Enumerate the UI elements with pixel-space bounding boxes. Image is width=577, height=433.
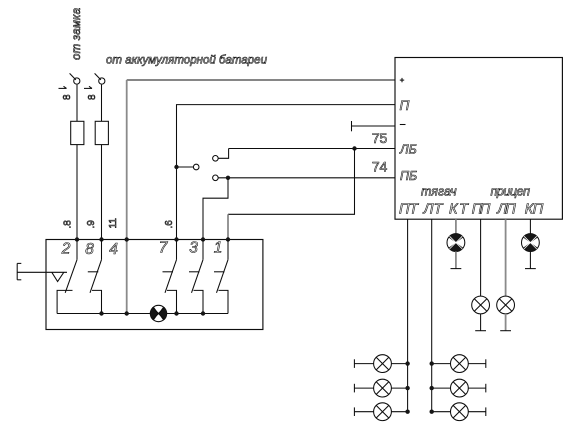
svg-text:7: 7 xyxy=(159,240,169,257)
wire: HL4 to bar xyxy=(505,314,507,331)
svg-text:11: 11 xyxy=(108,218,119,229)
wire: HL3 to bar xyxy=(480,314,482,331)
relay output wire ПП xyxy=(480,219,482,296)
switch contact pin 2 xyxy=(57,240,77,314)
contact pivot circle xyxy=(193,164,199,170)
node dot xyxy=(430,386,434,390)
switch contact pin 7 xyxy=(163,240,177,314)
svg-text:3: 3 xyxy=(189,240,198,257)
node: ЛБ branch dot xyxy=(352,146,356,150)
lamp HL8 xyxy=(374,403,392,421)
pin labels 2 8 4 7 3 1 xyxy=(61,240,223,259)
contact upper (to ЛБ) xyxy=(213,156,219,162)
lamp row 3 right: wire xyxy=(432,411,486,413)
node dot xyxy=(430,410,434,414)
svg-text:.8: .8 xyxy=(63,220,74,229)
wire: pin 4 vertical (battery feed) xyxy=(126,80,128,314)
wire: ПБ branch to pin 3 xyxy=(203,178,228,240)
indicator lamp HL1 (in box) xyxy=(150,305,166,321)
svg-text:.9: .9 xyxy=(86,220,97,229)
fuse F1 xyxy=(71,121,84,144)
svg-text:ПП: ПП xyxy=(472,201,491,217)
svg-text:П: П xyxy=(400,98,410,113)
wire: П terminal to switch pin 7 xyxy=(177,105,396,240)
wire label 8 (right) xyxy=(84,86,98,100)
relay box U1 xyxy=(395,58,562,220)
svg-text:1: 1 xyxy=(214,240,223,257)
svg-text:74: 74 xyxy=(372,158,388,174)
svg-text:КТ: КТ xyxy=(449,201,469,217)
wire: minus terminal stub xyxy=(352,125,396,127)
wire: connector X1 to fuse F1 xyxy=(76,85,78,122)
terminal bar xyxy=(353,384,355,393)
node dot xyxy=(405,410,409,414)
svg-text:ЛП: ЛП xyxy=(496,201,516,217)
lamp HL10 xyxy=(451,379,469,397)
connector X2 (к батарее) xyxy=(99,78,105,84)
switch contact pin 1 xyxy=(214,240,228,314)
lamp HL9 xyxy=(451,355,469,373)
rotated wire labels above box xyxy=(63,218,176,229)
svg-text:.6: .6 xyxy=(164,220,175,229)
node dot xyxy=(430,361,434,365)
wire: connector X2 to fuse F2 xyxy=(101,85,103,122)
svg-text:тягач: тягач xyxy=(421,185,457,199)
svg-text:ПБ: ПБ xyxy=(400,169,417,183)
lamp row 1 right: wire xyxy=(432,363,486,365)
terminal label + xyxy=(400,78,404,82)
terminal bar ПП xyxy=(475,330,486,332)
left switch box S1 xyxy=(46,240,263,330)
wire ЛБ (75) xyxy=(229,148,395,150)
terminal bar xyxy=(353,407,355,416)
terminal bar (minus) xyxy=(351,121,353,131)
relay output wire КТ xyxy=(455,219,457,234)
mechanical actuator bracket xyxy=(17,263,67,279)
svg-text:2: 2 xyxy=(61,241,71,258)
svg-text:75: 75 xyxy=(372,130,388,146)
node dot xyxy=(405,386,409,390)
contact lower (to ПБ) xyxy=(213,175,219,181)
relay output wire ЛТ xyxy=(431,219,433,412)
wire: upper contact to ЛБ line xyxy=(218,149,228,159)
svg-text:ЛТ: ЛТ xyxy=(423,201,444,217)
wire: battery feed to relay + terminal xyxy=(127,79,395,81)
svg-text:КП: КП xyxy=(525,201,544,217)
lamp HL3 (ПП) xyxy=(472,296,490,314)
wire label 8 (left) xyxy=(59,86,74,100)
wire: ЛБ branch to pin 1 xyxy=(228,149,355,215)
svg-text:8: 8 xyxy=(62,94,73,100)
lamp HL6 xyxy=(374,355,392,373)
terminal bar КТ xyxy=(451,268,462,270)
terminal labels ПТ ЛТ КТ ПП ЛП КП xyxy=(399,201,544,217)
actuator V link xyxy=(52,272,64,281)
bus wire in box xyxy=(57,313,228,315)
terminal bar xyxy=(353,359,355,368)
lamp row 2 left: wire xyxy=(354,387,407,389)
terminal bar xyxy=(485,359,487,368)
svg-text:8: 8 xyxy=(87,94,98,100)
lamp row 1 left: wire xyxy=(354,363,407,365)
lamp HL4 (ЛП) xyxy=(497,296,515,314)
terminal bar xyxy=(485,407,487,416)
terminal bar ЛП xyxy=(500,330,511,332)
terminal bar xyxy=(485,384,487,393)
indicator lamp HL5 (КП) xyxy=(522,234,540,252)
switch contact pin 3 xyxy=(189,240,203,314)
relay output wire ЛП xyxy=(505,219,507,296)
terminal bar КП xyxy=(525,268,536,270)
node: pivot branch dot on pin 7 wire xyxy=(174,165,178,169)
svg-text:ЛБ: ЛБ xyxy=(399,143,417,157)
relay output wire КП xyxy=(529,219,531,234)
node: ПБ branch dot xyxy=(226,176,230,180)
switch contact pin 8 xyxy=(88,240,102,314)
bus node dots xyxy=(99,311,205,315)
node dots on box top edge xyxy=(75,237,230,241)
terminal label minus xyxy=(400,124,406,126)
node dot xyxy=(405,361,409,365)
wire: pivot feed xyxy=(177,166,194,168)
fuse F2 xyxy=(95,121,108,144)
lamp HL11 xyxy=(451,403,469,421)
wire: pin 1 vertical xyxy=(227,214,229,239)
svg-text:прицеп: прицеп xyxy=(491,185,531,199)
indicator lamp HL2 (КТ) xyxy=(447,234,465,252)
lamp row 2 right: wire xyxy=(432,387,486,389)
svg-text:от замка: от замка xyxy=(71,8,83,60)
svg-text:от аккумуляторной батареи: от аккумуляторной батареи xyxy=(106,55,268,67)
wire: fuse F2 to switch pin 8 xyxy=(101,145,103,240)
relay output wire ПТ xyxy=(407,219,409,412)
wire ПБ (74) xyxy=(218,177,395,179)
lamp row 3 left: wire xyxy=(354,411,407,413)
wire: HL5 to bar xyxy=(529,252,531,269)
connector X1 (к замку) xyxy=(74,78,80,84)
svg-text:4: 4 xyxy=(109,241,118,258)
lamp HL7 xyxy=(374,379,392,397)
wire: HL2 to ground bar xyxy=(455,252,457,269)
wire: fuse F1 to switch pin 2 xyxy=(76,145,78,240)
svg-text:ПТ: ПТ xyxy=(399,201,419,217)
svg-text:8: 8 xyxy=(85,241,94,258)
